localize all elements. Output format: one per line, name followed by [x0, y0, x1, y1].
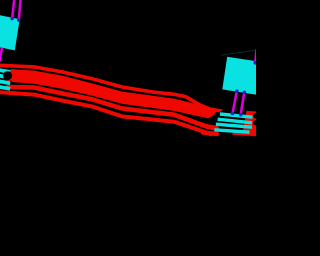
board background [0, 0, 256, 256]
courtyard outline above U2 (faint) [221, 50, 256, 55]
component U2 body (right cyan rectangle) [222, 57, 258, 95]
wire trace C [8, 87, 215, 128]
wire (magenta trace U2 pin to J2 pad 1) [232, 91, 237, 114]
wire (red strip under J2 pad 4) [233, 132, 257, 136]
wire (magenta trace to U1 pin 1) [12, 0, 14, 18]
wire (magenta trace to U1 pin 2) [19, 0, 21, 20]
connector J2 body (right, black pill) [213, 106, 261, 142]
via at J2 pad 1 (right pin) [239, 113, 243, 117]
pad 3 of J1 [0, 81, 10, 83]
pad ring (red block around J2 right hole) [243, 111, 257, 136]
via at J2 pad 1 (left pin) [231, 112, 235, 116]
wire trace D (bottom red trace of bus) [0, 92, 211, 134]
pad 1 of J1 [0, 70, 10, 72]
wire (magenta trace leaving U1 bottom-left) [0, 48, 2, 63]
wire stub into J2 pad 4 [203, 133, 217, 134]
wire stub into J2 pad 3 [205, 126, 217, 128]
drill hole of J1 [3, 71, 12, 80]
pad 3 of J2 [216, 124, 252, 127]
wire (magenta trace at top-right edge) [255, 50, 256, 63]
pad 4 of J2 [214, 130, 249, 132]
component U1 body (top-left cyan rectangle) [0, 15, 20, 51]
via at U2 lower-right pin [243, 91, 247, 95]
via at U2 lower-left pin [235, 89, 239, 93]
wire trace A (top red trace of bus) [0, 65, 256, 113]
wire (magenta trace U2 pin to J2 pad 1, right pin) [241, 92, 245, 115]
via at U1 pin 2 [17, 19, 20, 22]
drill hole of J2 (left) [215, 112, 225, 122]
drill hole of J2 (right) [253, 113, 259, 119]
pad 2 of J2 [218, 119, 252, 123]
pad 1 of J2 [220, 114, 253, 117]
via at U1 pin 1 [11, 17, 14, 20]
via at U2 top-right pin [253, 61, 257, 65]
pad ring (red annulus of J1 through-hole) [4, 71, 14, 81]
wire trace B (thick red bus band) [11, 70, 216, 118]
pad 2 of J1 [0, 76, 10, 78]
pad 4 of J1 [0, 87, 10, 89]
